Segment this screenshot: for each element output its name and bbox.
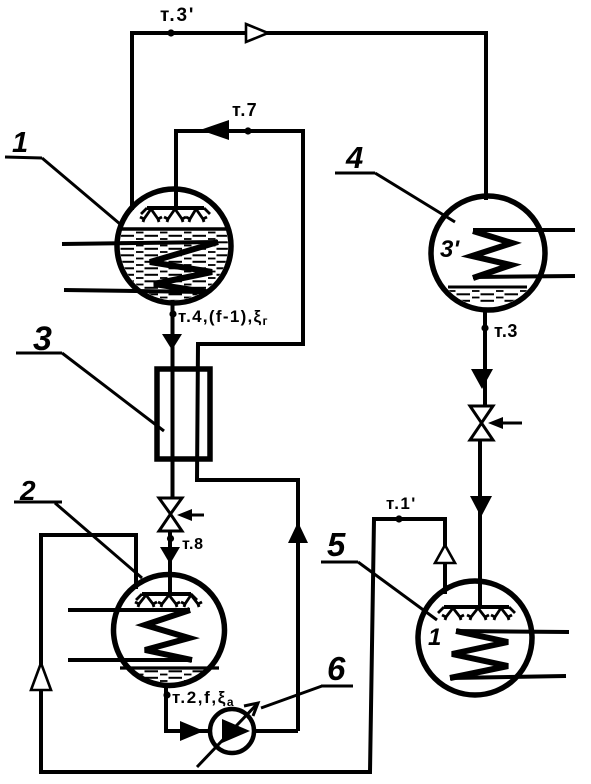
arrow filled left into valve (177, 509, 192, 521)
svg-text:т.2,f,ξа: т.2,f,ξа (172, 688, 235, 709)
wire valve to vessel5 spray (478, 440, 482, 608)
valve below recuperator (throttle to vessel 2) (159, 498, 182, 514)
svg-text:6: 6 (327, 650, 346, 687)
liquid hatching vessel 1 (117, 231, 231, 301)
arrow filled left on т.7 line (200, 120, 229, 140)
svg-text:т.8: т.8 (182, 536, 204, 553)
node т.3 dot (481, 324, 488, 331)
spray nozzles vessel 2 (135, 594, 202, 607)
svg-text:т.7: т.7 (232, 100, 258, 120)
coil pipes vessel 5 (456, 631, 569, 632)
node т.1' dot (395, 515, 402, 522)
arrow open up out of vessel5 (435, 545, 455, 563)
wire т.7 line into vessel 1 spray (176, 131, 303, 731)
valve on т.3 path (470, 406, 493, 423)
arrow filled up on pump discharge line (288, 522, 308, 543)
node т.2 dot (163, 691, 170, 698)
arrow filled right into pump (180, 721, 204, 741)
arrow filled down below т.8 (160, 547, 180, 564)
vessel 2 (absorber) internals (116, 669, 222, 687)
arrow filled down above valve (471, 369, 493, 389)
vessel 4 shell (431, 196, 545, 310)
node т.7 dot (244, 127, 251, 134)
node т.4 dot (169, 310, 176, 317)
svg-text:т.1': т.1' (386, 494, 417, 513)
pool hatching vessel 4 (444, 289, 534, 303)
wire vapor line vessel1 to vessel4 (т.3' line) (132, 33, 486, 210)
coil zigzag vessel 1 (150, 242, 218, 292)
liquid level line vessel 1 (118, 227, 230, 230)
wire vessel4 bottom to valve to vessel5 (т.3 path) (483, 308, 487, 406)
arrow filled left into right valve (488, 417, 503, 429)
vessel 1 (generator) internals (117, 231, 231, 301)
pump variable arrow diagonal (197, 703, 258, 767)
spray header vessel 1 (147, 206, 204, 210)
vessel 4 (condenser) internals (444, 289, 534, 303)
pool level line vessel 2 (120, 666, 219, 669)
svg-text:4: 4 (345, 140, 363, 175)
spray header vessel 5 (444, 605, 509, 609)
spray nozzles vessel 5 (438, 607, 515, 620)
spray header vessel 2 (142, 592, 191, 596)
svg-text:1: 1 (428, 624, 441, 651)
svg-text:т.3: т.3 (494, 321, 518, 341)
wire vessel2 bottom to pump (166, 684, 211, 731)
wire vapor return vessel5 to vessel2 (т.1' path) (41, 519, 445, 772)
arrow open right on т.3' line (246, 24, 268, 42)
svg-text:3': 3' (440, 236, 460, 263)
vessel 2 shell (114, 575, 225, 686)
coil pipes vessel 4 (473, 228, 575, 232)
vessel 5 shell (418, 581, 532, 695)
node т.3' dot (167, 29, 174, 36)
wire valve to vessel 2 top (168, 531, 172, 594)
wire pump discharge to riser (253, 729, 298, 733)
svg-text:т.4,(f-1),ξг: т.4,(f-1),ξг (178, 307, 269, 328)
coil zigzag vessel 4 (472, 231, 512, 278)
svg-text:т.3': т.3' (160, 5, 195, 26)
recuperator 3 rectangle (157, 369, 210, 459)
node т.8 dot (167, 535, 174, 542)
wire main solution line vessel1 bottom through recuperator to valve (171, 300, 175, 498)
coil zigzag vessel 5 (450, 631, 508, 678)
spray nozzles vessel 1 (140, 208, 210, 222)
vessel 1 shell (117, 189, 231, 303)
pump 6 (210, 709, 254, 753)
arrow open up on left return riser (31, 663, 51, 690)
coil pipes vessel 2 (68, 608, 190, 612)
svg-text:1: 1 (12, 127, 28, 159)
coil zigzag vessel 2 (145, 610, 192, 660)
liquid pool hatching vessel 2 (116, 669, 222, 687)
arrow filled down below right valve (470, 496, 492, 517)
arrow filled down below т.4 (162, 334, 182, 350)
svg-text:5: 5 (327, 526, 346, 563)
coil pipes vessel 1 (62, 242, 218, 244)
pool level line vessel 4 (448, 286, 527, 289)
